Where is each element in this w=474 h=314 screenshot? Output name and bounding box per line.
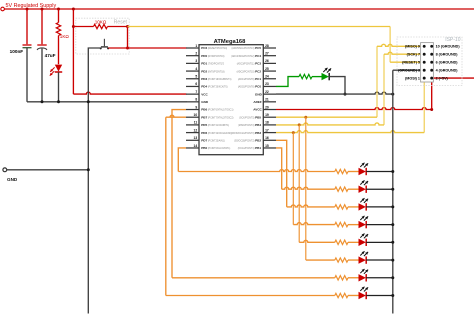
svg-text:9: 9 [195,105,197,109]
svg-text:2: 2 [195,52,197,56]
svg-text:AREF: AREF [253,100,262,104]
IC U1 ATMega168 body [199,45,263,155]
terminal GND [3,168,7,172]
wire LED row5 cathode [366,241,393,243]
pin 6 stub [186,85,199,87]
node bus row3 [391,205,394,208]
svg-text:6: 6 [195,82,197,86]
wire button to pin1 [108,47,186,49]
wire MISO top [377,44,424,46]
wire LED cathode bus [392,70,394,313]
svg-text:ISP-10: ISP-10 [445,37,461,43]
wire C2 to ground [41,49,43,102]
connector J1 pad R2 [430,53,433,56]
svg-text:5: 5 [195,75,197,79]
LED D5 red row3 [359,203,366,210]
pin 26 stub [263,62,276,64]
node PB3 branch [292,131,295,134]
wire rail to R1 [58,9,60,23]
svg-text:(SCK) 7: (SCK) 7 [407,53,420,57]
pin 20 stub [263,109,276,111]
wire LED row1 cathode [366,171,393,173]
pin 21 stub [263,101,276,103]
wire reset ISP vertical [389,27,391,63]
pin 28 stub [263,47,276,49]
svg-text:7: 7 [195,90,197,94]
pin 9 stub [186,109,199,111]
svg-text:(RESET) 5: (RESET) 5 [402,61,420,65]
wire R10 to LED [348,277,359,279]
pin 22 stub [263,93,276,95]
wire gnd pin8 [27,101,187,103]
pin 19 stub [263,116,276,118]
wire +5V rail [4,8,474,10]
wire R9 to LED [348,259,359,261]
node bus row8 [391,294,394,297]
wire R11 to LED [348,294,359,296]
svg-text:AVCC: AVCC [253,108,262,112]
wire LED row4 cathode [366,224,393,226]
node gnd tap x88.3 [87,100,90,103]
pin 1 stub [186,47,199,49]
wire gnd terminal [7,169,89,171]
wire PB4 row5 b [299,240,335,242]
LED D2 green [322,73,329,80]
capacitor C1 100nF [26,9,28,44]
node reset junction [126,25,129,28]
wire VCC vertical [72,9,74,94]
resistor R3 green LED [299,74,312,78]
wire PB7 row8 c [166,295,335,297]
wire reset vertical [127,27,129,49]
wire PB5 row6 a [305,117,307,260]
resistor R1 1K zigzag [56,23,60,36]
resistor R9 row6 [335,258,348,262]
capacitor C1 plate top [23,44,32,46]
connector J1 pad R3 [430,61,433,64]
wire D1 to ground [58,72,60,102]
svg-text:17: 17 [265,128,269,132]
resistor R11 row8 [335,293,348,297]
node bus row1 [391,170,394,173]
wire PC0 green [276,77,299,87]
svg-text:8: 8 [195,98,197,102]
wire R3 to D2 [312,76,322,78]
wire SCK top [384,52,424,54]
wire PB4 row5 a [298,125,300,242]
node PB4 branch [298,123,301,126]
wire gnd pin22 rail [276,92,393,94]
wire LED row2 cathode [366,188,393,190]
connector J1 pad L5 [423,77,426,80]
svg-text:24: 24 [265,75,269,79]
wire R1 to D1 [58,36,60,65]
svg-text:26: 26 [265,59,269,63]
svg-text:22: 22 [265,90,269,94]
connector J1 pad R5 [430,77,433,80]
pin 11 stub [186,124,199,126]
resistor R5 row2 [335,187,348,191]
svg-text:27: 27 [265,52,269,56]
svg-text:10 (GROUND): 10 (GROUND) [436,45,461,49]
svg-text:11: 11 [194,121,198,125]
svg-text:21: 21 [265,98,269,102]
wire PB6 row7 a [172,110,186,278]
connector J1 pad R4 [430,69,433,72]
wire PB6 row7 b [172,277,335,279]
capacitor C2 47uF [41,9,43,44]
svg-text:5V Regulated Supply: 5V Regulated Supply [6,3,57,9]
node bus row2 [391,188,394,191]
connector J1 pad L3 [423,61,426,64]
node bus row6 [391,259,394,262]
node bus row4 [391,223,394,226]
wire AVCC [276,108,432,110]
pin 3 stub [186,62,199,64]
LED D6 red row4 [359,221,366,228]
pin 15 stub [263,147,276,149]
pin 2 stub [186,55,199,57]
wire to R2 [73,26,93,28]
svg-text:20: 20 [265,105,269,109]
wire SCK to PB4 [276,123,384,125]
svg-text:10: 10 [194,113,198,117]
pin 23 stub [263,85,276,87]
svg-text:6 (GROUND): 6 (GROUND) [436,61,459,65]
svg-text:18: 18 [265,121,269,125]
node rail tap x73.4 [72,8,75,11]
svg-text:8 (GROUND): 8 (GROUND) [436,53,459,57]
resistor R2 10K zigzag [94,24,108,28]
wire MOSI vertical [423,78,425,132]
svg-text:Reset: Reset [114,20,128,26]
pin 17 stub [263,132,276,134]
svg-text:4 (GROUND): 4 (GROUND) [436,69,459,73]
wire R8 to LED [348,241,359,243]
svg-text:4: 4 [195,67,197,71]
svg-text:13: 13 [194,136,198,140]
resistor R10 row7 [335,276,348,280]
wire VCC to pin7 [73,92,186,94]
wire PB7 row8 a [166,115,186,117]
LED D8 red row6 [359,256,366,263]
svg-text:GND: GND [7,177,18,182]
pin 24 stub [263,78,276,80]
svg-text:15: 15 [265,144,269,148]
pin 7 stub [186,93,199,95]
pin 4 stub [186,70,199,72]
wire LED row8 cathode [366,294,393,296]
pin 27 stub [263,55,276,57]
node bus row5 [391,241,394,244]
resistor R6 row3 [335,205,348,209]
wire PB1 row2 a [276,148,282,189]
wire MISO to PB5 [276,116,377,118]
wire reset to ISP [128,26,391,28]
wire reset ISP entry [390,61,424,63]
wire R7 to LED [348,224,359,226]
wire PB5 row6 b [306,259,335,261]
resistor R7 row4 [335,222,348,226]
node reset tap [72,25,75,28]
svg-text:VCC: VCC [201,92,208,96]
svg-text:28: 28 [265,44,269,48]
svg-text:19: 19 [265,113,269,117]
pin 25 stub [263,70,276,72]
capacitor C2 curved plate [37,48,47,50]
wire ISP +5V down [431,78,433,109]
svg-text:1KΩ: 1KΩ [60,34,70,39]
connector J1 pad L4 [423,69,426,72]
wire PB2 row3 a [276,140,287,207]
box reset group [76,18,129,54]
svg-text:100nF: 100nF [10,49,24,54]
connector J1 pad R1 [430,45,433,48]
connector J1 ISP body [421,43,434,82]
svg-text:(GROUND) 3: (GROUND) 3 [398,69,420,73]
LED D1 power indicator [55,65,62,72]
svg-text:ATMega168: ATMega168 [214,39,247,45]
resistor R4 row1 [335,169,348,173]
node gnd terminal junction [87,168,90,171]
wire PB3 row4 b [293,223,335,225]
pin 13 stub [186,139,199,141]
node gnd tap x42 [41,100,44,103]
node green cathode junction [344,93,347,96]
terminal 5V supply [1,7,5,11]
wire R4 to LED [348,171,359,173]
pin 12 stub [186,132,199,134]
svg-text:47uF: 47uF [45,53,56,58]
LED D10 red row8 [359,292,366,299]
svg-text:25: 25 [265,67,269,71]
node rail tap x27 [26,8,29,11]
pin 14 stub [186,147,199,149]
svg-text:2 (+5V): 2 (+5V) [436,77,449,81]
wire PB1 row2 b [282,187,335,189]
pin 5 stub [186,78,199,80]
pin 8 stub [186,101,199,103]
wire R2 to reset node [108,26,128,28]
svg-text:GND: GND [201,100,209,104]
LED D9 red row7 [359,274,366,281]
wire LED row7 cathode [366,277,393,279]
wire MOSI to PB3 [276,131,424,133]
pin 18 stub [263,124,276,126]
wire PB7 row8 b [165,117,167,295]
node rail tap x58.5 [57,8,60,11]
node rail tap x42 [41,8,44,11]
pin 10 stub [186,116,199,118]
svg-text:10KΩ: 10KΩ [95,20,107,25]
svg-text:16: 16 [265,136,269,140]
resistor R8 row5 [335,240,348,244]
wire MISO vertical [376,46,378,117]
svg-text:14: 14 [194,144,198,148]
wire C1 to ground [26,48,28,102]
node PB5 branch [304,116,307,119]
LED D4 red row2 [359,186,366,193]
wire PB0 row1 a [178,148,186,172]
wire D2 cathode [329,77,345,95]
node bus row7 [391,276,394,279]
wire PB3 row4 a [292,133,294,225]
wire SCK vertical [383,54,385,125]
wire ISP +5V right [432,77,474,79]
switch S1 reset button [101,46,108,48]
wire ISP ground entry [393,69,424,71]
svg-text:(MOSI) 1: (MOSI) 1 [405,77,420,81]
wire R5 to LED [348,188,359,190]
wire R6 to LED [348,206,359,208]
wire PB2 row3 b [287,205,335,207]
wire LED row6 cathode [366,259,393,261]
box ISP group [397,37,462,86]
capacitor C2 plate top [37,44,46,46]
wire button to gnd [88,48,101,314]
node button-right junction [126,47,129,50]
wire PB0 row1 b [178,170,334,172]
svg-text:12: 12 [194,128,198,132]
node rail-bus junction [391,93,394,96]
connector J1 pad L1 [423,45,426,48]
svg-text:3: 3 [195,59,197,63]
pin 16 stub [263,139,276,141]
capacitor C1 plate bottom [23,47,32,49]
svg-text:(MISO) 9: (MISO) 9 [405,45,420,49]
connector J1 pad L2 [423,53,426,56]
svg-text:GND: GND [255,92,263,96]
LED D7 red row5 [359,239,366,246]
LED D3 red row1 [359,168,366,175]
svg-text:1: 1 [195,44,197,48]
node AVCC-5V junction [430,108,433,111]
node gnd tap x58.5 [57,100,60,103]
wire LED row3 cathode [366,206,393,208]
svg-text:23: 23 [265,82,269,86]
